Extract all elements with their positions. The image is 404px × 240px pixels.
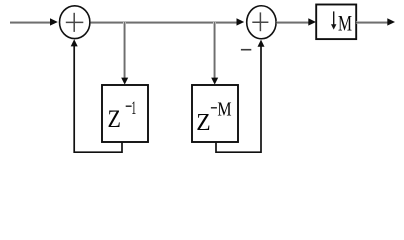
delay block Z^-1	[102, 85, 148, 142]
output arrowhead	[387, 18, 395, 25]
comb wire Z-M out, down right and up to adder A2	[216, 46, 261, 152]
delay block Z^-M	[192, 85, 238, 142]
arrowhead into adder A2	[237, 18, 245, 25]
wire branch down to Z-1	[124, 22, 126, 79]
down-arrow glyph of decimator	[331, 11, 336, 29]
plus sign of adder A1	[66, 13, 84, 32]
adder A2 (summing junction)	[247, 6, 276, 39]
plus sign of adder A2	[252, 12, 268, 31]
arrowhead into Z-M box top	[211, 78, 218, 85]
minus sign at A2 lower input	[241, 49, 251, 51]
superscript minus of Z^-M	[211, 107, 217, 109]
svg-text:Z: Z	[196, 109, 210, 136]
wire input	[10, 22, 51, 24]
arrowhead into decimator box	[308, 18, 316, 25]
feedback wire Z-1 out, down and left	[74, 46, 122, 152]
wire A2 output to decimator	[277, 22, 310, 24]
svg-text:1: 1	[131, 99, 136, 119]
arrowhead into Z-1 box top	[121, 78, 128, 85]
adder A1 (summing junction)	[59, 6, 89, 39]
svg-text:M: M	[217, 98, 231, 120]
svg-text:M: M	[338, 10, 352, 35]
arrowhead into adder A2 bottom	[258, 40, 265, 47]
arrowhead into adder A1 bottom	[71, 39, 78, 46]
wire branch down to Z-M	[214, 22, 216, 79]
svg-text:Z: Z	[108, 106, 121, 133]
wire A1 output to adder A2	[91, 22, 238, 24]
decimator block M	[316, 5, 356, 40]
input arrowhead into adder A1	[50, 18, 58, 25]
superscript minus of Z^-1	[126, 105, 132, 107]
wire output	[356, 22, 388, 24]
